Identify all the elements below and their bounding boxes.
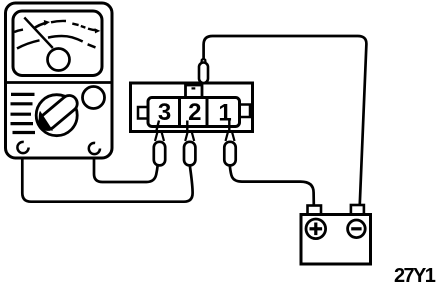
plus sign	[310, 227, 323, 230]
knob handle black grip wedge	[39, 111, 53, 131]
wire W3: probe under pin 1 to battery positive post	[230, 166, 314, 206]
battery negative post	[351, 205, 364, 215]
svg-text:1: 1	[218, 100, 231, 127]
scale upper dashed arc	[14, 30, 23, 32]
knob handle	[37, 92, 81, 133]
wire W2: meter right terminal to probe under pin 3	[94, 159, 158, 183]
wire W4: battery negative post up and over to top probe at pin 2	[204, 36, 367, 204]
connector right tab	[240, 105, 251, 118]
svg-text:27Y1: 27Y1	[394, 265, 436, 287]
auxiliary dial circle	[83, 87, 105, 109]
multimeter body	[6, 3, 113, 158]
range scale bars	[11, 93, 35, 96]
positive terminal circle	[306, 219, 326, 239]
connector latch	[186, 85, 203, 98]
connector terminal block	[148, 98, 240, 127]
panel separator line	[7, 81, 111, 84]
divider between cavity 2 and 1	[206, 98, 209, 127]
svg-text:2: 2	[188, 99, 201, 126]
battery positive post	[308, 206, 322, 215]
negative terminal circle	[348, 220, 366, 238]
pin lead under 1	[228, 121, 230, 131]
meter left terminal	[17, 142, 28, 153]
connector housing	[131, 83, 253, 132]
pin lead under 2	[186, 121, 188, 131]
divider between cavity 3 and 2	[178, 98, 181, 127]
needle pivot circle	[48, 49, 70, 71]
test probe under pin 3	[154, 132, 165, 166]
test probe under pin 1	[224, 132, 235, 166]
meter display window	[13, 11, 102, 76]
needle swing arrow	[35, 23, 45, 27]
wire W1: meter left terminal to probe under pin 2	[22, 159, 192, 202]
top probe at pin 2 rear	[199, 59, 208, 83]
scale lower arc	[17, 40, 40, 48]
pin lead under 3	[157, 121, 160, 131]
svg-text:3: 3	[158, 99, 171, 126]
meter right terminal	[89, 143, 100, 154]
battery body	[301, 215, 371, 265]
meter needle	[24, 18, 53, 49]
test probe under pin 2	[184, 132, 195, 166]
connector left tab	[138, 107, 149, 119]
rotary knob	[36, 95, 77, 136]
minus sign	[351, 227, 361, 230]
